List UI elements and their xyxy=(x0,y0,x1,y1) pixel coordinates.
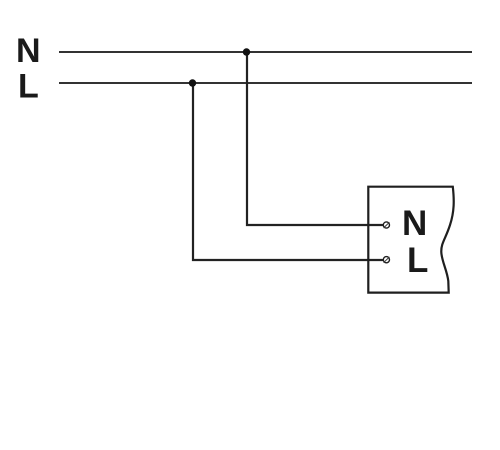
svg-text:N: N xyxy=(16,32,41,70)
svg-text:N: N xyxy=(402,204,427,243)
svg-text:L: L xyxy=(407,241,428,280)
svg-text:L: L xyxy=(18,68,39,106)
